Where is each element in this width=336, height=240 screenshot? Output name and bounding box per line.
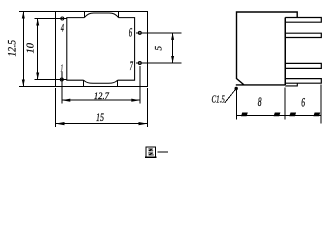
dimension 8: arrow right: [274, 113, 281, 117]
dimension 12.7: extension line from pin 1: [61, 72, 63, 104]
pin 4 circle: [61, 17, 64, 20]
caption glyph 图 (drawn): [145, 147, 156, 158]
side view: body right edge: [284, 18, 286, 85]
svg-text:7: 7: [130, 59, 134, 73]
dimension 12.7: arrow right: [131, 99, 140, 102]
dimension 8: arrow left: [241, 113, 248, 117]
pin 1 circle: [60, 78, 63, 81]
winding bulge arc top flat segment: [94, 12, 110, 14]
dimension 8/6: extension line right: [320, 85, 322, 124]
dimension 15: arrow right: [139, 122, 148, 125]
svg-text:8: 8: [258, 94, 262, 109]
dimension 6: arrow right: [313, 113, 320, 117]
pin 6 circle: [138, 31, 141, 34]
core tongue tick bottom-left: [83, 80, 85, 86]
dimension 10: dimension line: [37, 19, 39, 80]
dimension 15: dimension line: [56, 123, 148, 125]
svg-text:10: 10: [25, 42, 37, 53]
dimension 12.7: dimension line: [62, 99, 140, 101]
dimension 5: extension line from pin 7: [136, 62, 182, 64]
side view: pin bar D: [285, 79, 321, 84]
svg-text:15: 15: [96, 110, 104, 124]
svg-text:12.7: 12.7: [94, 92, 110, 102]
side view: pin bar A: [285, 18, 321, 23]
dimension 10: arrow up: [36, 19, 39, 26]
side view: pin bar B: [285, 33, 321, 37]
svg-text:4: 4: [61, 21, 64, 35]
svg-text:1: 1: [61, 64, 64, 75]
dimension 12.5: extension line top: [19, 11, 56, 13]
dimension 12.7: extension line from pin 7: [139, 66, 141, 104]
dimension 5: arrow down: [171, 56, 174, 63]
dimension 10: arrow down: [36, 73, 39, 80]
svg-text:5: 5: [153, 45, 163, 50]
chamfer leader dot: [235, 87, 238, 90]
pin 7 circle: [138, 62, 141, 65]
side view: body outline with chamfer: [236, 12, 297, 85]
dimension 12.5: arrow down: [22, 80, 25, 87]
dimension 5: arrow up: [171, 33, 174, 40]
dimension 12.5: dimension line: [22, 12, 24, 87]
dimension 10: extension line top: [35, 18, 68, 20]
caption dash (一): [157, 151, 167, 153]
dimension 12.5: extension line bottom: [19, 86, 56, 88]
svg-text:C1.5: C1.5: [212, 95, 225, 106]
winding bulge arc (top): [84, 13, 118, 18]
core tongue tick top-right: [118, 12, 120, 18]
dimension 8/6: extension line left: [236, 88, 238, 120]
transformer top view: outer flange rectangle: [56, 12, 148, 87]
dimension 15: arrow left: [56, 122, 65, 125]
dimension 5: extension line from pin 6: [136, 32, 182, 34]
dimension 5: dimension line: [172, 33, 174, 63]
dimension 8/6: dimension line: [237, 115, 322, 117]
side view: pin bar C: [285, 63, 321, 68]
chamfer leader line: [225, 88, 236, 102]
dimension 15: extension line left: [55, 88, 57, 127]
dimension 6: arrow left: [289, 113, 296, 117]
svg-text:6: 6: [301, 94, 305, 109]
svg-text:6: 6: [129, 25, 133, 40]
dimension 15: extension line right: [147, 88, 149, 127]
dimension 8/6: extension line middle: [284, 88, 286, 120]
dimension 12.5: arrow up: [22, 12, 25, 19]
dimension 10: extension line bottom: [35, 79, 68, 81]
dimension 12.7: arrow left: [62, 99, 71, 102]
svg-text:12.5: 12.5: [6, 40, 18, 57]
core tongue tick top-left: [83, 12, 85, 18]
core tongue tick bottom-right: [117, 80, 119, 86]
transformer top view: inner bobbin body outline with winding bulges: [67, 18, 135, 81]
side view: bottom-right step under pin D: [285, 83, 297, 86]
winding bulge arc (bottom): [84, 80, 118, 83]
